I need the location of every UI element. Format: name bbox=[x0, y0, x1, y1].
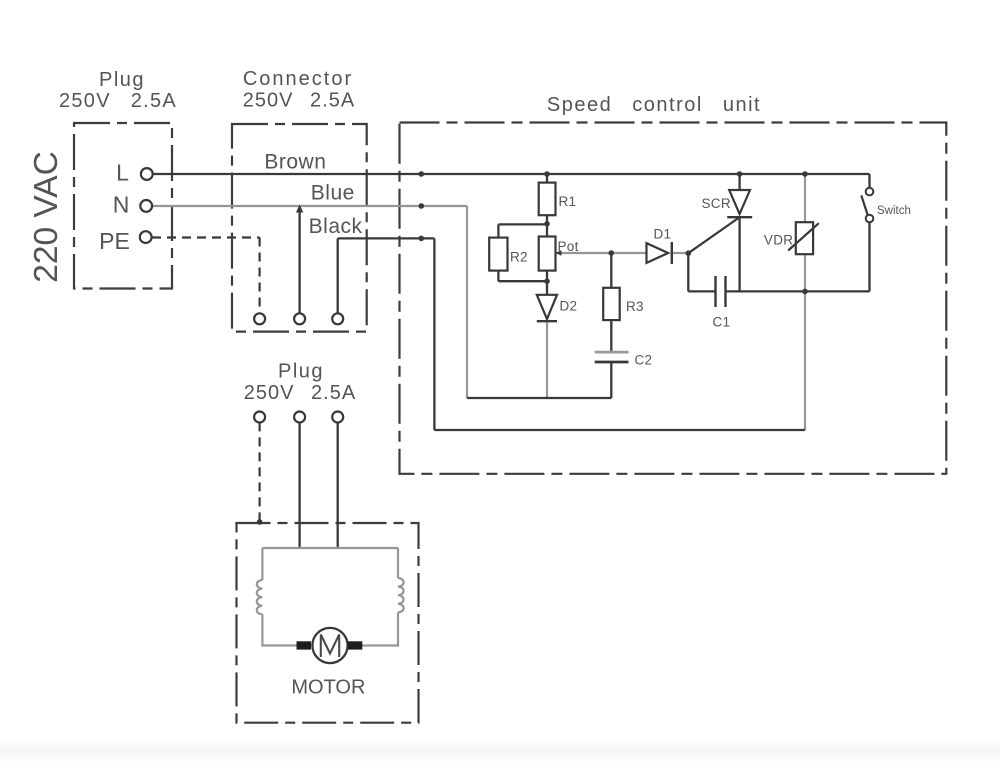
svg-text:VDR: VDR bbox=[764, 233, 793, 248]
wire L brown rail bbox=[153, 173, 870, 175]
node dot Pot bottom junction bbox=[544, 278, 550, 284]
motor loop right vertical bbox=[397, 548, 399, 578]
wire connector pin3 vertical bbox=[337, 238, 339, 313]
inductor field coil left bbox=[257, 580, 263, 614]
node dot R1 bottom junction bbox=[544, 221, 550, 227]
svg-text:R3: R3 bbox=[626, 299, 644, 314]
svg-text:R2: R2 bbox=[510, 250, 528, 265]
svg-text:PE: PE bbox=[99, 228, 130, 254]
wire pot wiper to D1 bbox=[556, 252, 647, 254]
thyristor SCR cathode lead bbox=[738, 217, 740, 291]
wire node R1-R2-Pot horizontal bbox=[498, 223, 547, 225]
wire VDR bottom lead bbox=[804, 254, 806, 291]
diode D2 triangle bbox=[537, 295, 557, 319]
thyristor SCR cathode bar bbox=[727, 216, 752, 218]
wire VDR top lead bbox=[804, 174, 806, 222]
diode D2 cathode bar bbox=[537, 320, 557, 322]
wire D2 cathode down bbox=[546, 321, 548, 398]
connector pin 3 circle bbox=[332, 313, 343, 324]
wire cathode rail right of C1 bbox=[726, 290, 870, 292]
wire plug2 pin2 to motor bbox=[298, 422, 300, 549]
wire C2 bottom lead bbox=[610, 362, 612, 398]
switch bottom terminal bbox=[866, 215, 874, 223]
svg-text:250V 2.5A: 250V 2.5A bbox=[59, 90, 177, 112]
wire blue vertical drop bbox=[466, 206, 468, 398]
speed control unit box (dash-dot) bbox=[400, 123, 947, 474]
svg-text:N: N bbox=[113, 192, 130, 218]
wire connector pin2 vertical bbox=[298, 209, 300, 314]
motor inner loop top bbox=[262, 547, 398, 549]
wire cathode rail left of C1 bbox=[688, 290, 715, 292]
motor brush left bbox=[297, 641, 312, 649]
terminal L circle bbox=[141, 168, 153, 180]
thyristor SCR gate lead diagonal bbox=[688, 217, 740, 254]
wire PE dashed plug2 to motor bbox=[259, 422, 261, 521]
junction arrow pin2 to blue wire bbox=[296, 205, 303, 213]
plug box (top-left, dash-dot) bbox=[74, 123, 172, 289]
svg-text:Blue: Blue bbox=[311, 182, 355, 205]
wire node rail to black return bbox=[804, 291, 806, 430]
motor loop left lower bbox=[262, 614, 297, 645]
node dot R1 top bbox=[544, 171, 550, 177]
capacitor C1 right plate bbox=[724, 276, 726, 307]
svg-text:Black: Black bbox=[309, 215, 363, 238]
wire D2 top lead bbox=[546, 281, 548, 295]
plug2 pin 3 circle bbox=[332, 412, 343, 423]
svg-text:SCR: SCR bbox=[702, 196, 731, 211]
label M in motor bbox=[321, 635, 339, 658]
plug2 pin 1 circle bbox=[254, 412, 265, 423]
wire gate node vertical bbox=[687, 253, 689, 291]
diode D1 cathode bar bbox=[671, 242, 673, 264]
resistor R2 bbox=[489, 238, 507, 271]
node dot PE at motor box bbox=[257, 519, 263, 525]
svg-text:MOTOR: MOTOR bbox=[291, 677, 365, 699]
wire N blue horizontal bbox=[153, 205, 468, 207]
wire black bottom run bbox=[434, 429, 805, 431]
resistor R1 bbox=[539, 183, 556, 216]
capacitor C1 left plate bbox=[714, 276, 716, 307]
motor box (dash-dot) bbox=[237, 523, 419, 723]
resistor R3 bbox=[603, 288, 620, 320]
wire R1 top lead bbox=[546, 174, 548, 183]
wire black vertical drop bbox=[433, 238, 435, 430]
switch lever bbox=[861, 195, 868, 217]
svg-text:Speed control unit: Speed control unit bbox=[547, 94, 761, 116]
node dot black at box entry bbox=[419, 236, 425, 242]
node dot brown at box entry bbox=[419, 171, 425, 177]
potentiometer wiper arrow bbox=[556, 250, 562, 255]
svg-text:C1: C1 bbox=[713, 315, 731, 330]
wire D1 cathode to gate node bbox=[672, 252, 689, 254]
svg-text:Pot: Pot bbox=[558, 239, 579, 254]
wire R1 bottom lead bbox=[546, 215, 548, 224]
wire Pot bottom lead bbox=[546, 271, 548, 282]
terminal PE circle bbox=[140, 231, 152, 243]
svg-text:250V 2.5A: 250V 2.5A bbox=[243, 90, 355, 112]
diode D1 triangle bbox=[647, 243, 669, 263]
motor loop left vertical bbox=[261, 548, 263, 580]
thyristor SCR triangle bbox=[729, 190, 750, 214]
node dot SCR anode on rail bbox=[737, 171, 743, 177]
potentiometer Pot body bbox=[539, 237, 556, 271]
svg-text:Connector: Connector bbox=[243, 68, 353, 90]
svg-text:D2: D2 bbox=[560, 299, 578, 314]
connector pin 1 circle bbox=[254, 313, 265, 324]
svg-text:L: L bbox=[116, 160, 129, 186]
wire Pot top lead bbox=[546, 224, 548, 236]
node dot VDR bottom junction bbox=[802, 289, 808, 295]
wire R2 top lead bbox=[497, 224, 499, 237]
varistor VDR body bbox=[796, 222, 813, 254]
wire rail to switch top bbox=[868, 174, 870, 188]
motor circle bbox=[312, 628, 347, 663]
svg-text:Brown: Brown bbox=[264, 151, 326, 174]
wire blue bottom horizontal bbox=[467, 397, 611, 399]
wire R2 bottom horizontal bbox=[498, 280, 547, 282]
node dot wiper-R3 junction bbox=[609, 250, 615, 256]
svg-text:Switch: Switch bbox=[877, 205, 911, 217]
connector pin 2 circle bbox=[294, 313, 305, 324]
svg-text:R1: R1 bbox=[559, 194, 577, 209]
wire PE dashed horizontal bbox=[152, 236, 260, 238]
thyristor SCR anode lead bbox=[738, 174, 740, 190]
capacitor C2 top plate bbox=[595, 351, 629, 354]
wire PE dashed vertical bbox=[259, 238, 261, 314]
connector box (dash-dot) bbox=[232, 124, 367, 332]
svg-text:Plug: Plug bbox=[278, 361, 324, 383]
svg-text:250V 2.5A: 250V 2.5A bbox=[244, 382, 356, 404]
wire R3 to C2 bbox=[610, 320, 612, 352]
motor brush right bbox=[348, 641, 363, 649]
wire black horizontal from connector bbox=[338, 237, 435, 239]
svg-text:D1: D1 bbox=[654, 227, 672, 242]
plug2 pin 2 circle bbox=[294, 412, 305, 423]
wire R2 bottom lead bbox=[497, 271, 499, 282]
svg-text:C2: C2 bbox=[635, 353, 653, 368]
varistor VDR diagonal stroke bbox=[788, 223, 819, 250]
wire R3 top lead bbox=[610, 253, 612, 288]
wire switch bottom vertical bbox=[868, 223, 870, 292]
motor loop right lower bbox=[361, 612, 398, 645]
terminal N circle bbox=[140, 200, 152, 212]
svg-text:220 VAC: 220 VAC bbox=[28, 151, 65, 283]
inductor field coil right bbox=[398, 578, 404, 612]
svg-text:Plug: Plug bbox=[99, 69, 145, 91]
node dot blue at box entry bbox=[419, 203, 425, 209]
capacitor C2 bottom plate bbox=[595, 361, 629, 364]
switch top terminal bbox=[866, 188, 874, 196]
node dot gate junction bbox=[686, 250, 692, 256]
node dot VDR top on rail bbox=[802, 171, 808, 177]
wire plug2 pin3 to motor bbox=[337, 422, 339, 549]
